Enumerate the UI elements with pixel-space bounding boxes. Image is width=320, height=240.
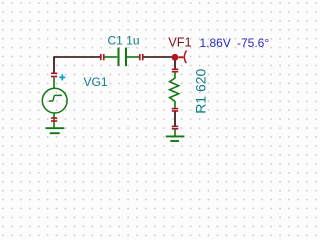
- VG1 waveform symbol: [49, 95, 62, 101]
- voltage generator VG1 circle: [42, 88, 67, 113]
- VG1 plus polarity mark: [59, 74, 65, 80]
- capacitor C1 left plate: [118, 48, 120, 67]
- capacitor C1 right pin stub: [127, 56, 140, 58]
- capacitor C1 right pin ticks: [140, 54, 143, 60]
- VG1 bottom pin connection ticks: [51, 118, 57, 121]
- svg-text:R1 620: R1 620: [192, 68, 208, 113]
- svg-text:VG1: VG1: [84, 75, 108, 89]
- svg-text:C1 1u: C1 1u: [108, 34, 140, 48]
- voltage pin probe VF1: [179, 51, 187, 64]
- wire from VG1 top to capacitor (corner at 54,57): [54, 57, 100, 74]
- VG1 top pin connection ticks: [51, 73, 57, 76]
- wire from resistor to ground: [174, 112, 176, 127]
- resistor R1 bottom pin ticks: [172, 109, 178, 111]
- capacitor C1 right plate: [125, 48, 127, 67]
- svg-text:VF1: VF1: [168, 35, 191, 50]
- wire from capacitor to node VF1: [144, 56, 173, 58]
- resistor R1 zigzag: [170, 72, 179, 108]
- wire from node to resistor R1: [174, 61, 176, 70]
- VG1 bottom pin stub: [53, 113, 55, 128]
- node VF1 junction dot: [172, 54, 179, 61]
- ground (under VG1): [46, 128, 65, 133]
- svg-text:1.86V: 1.86V: [200, 36, 231, 50]
- resistor R1 top pin ticks: [172, 69, 178, 71]
- VG1 top pin stub: [53, 77, 55, 88]
- capacitor C1 left pin stub: [104, 56, 117, 58]
- ground pin ticks (under R1): [172, 126, 178, 128]
- ground pin stub (under R1): [174, 129, 176, 136]
- capacitor C1 left pin ticks: [101, 54, 104, 60]
- svg-text:-75.6°: -75.6°: [237, 36, 269, 50]
- ground (under R1): [166, 136, 185, 141]
